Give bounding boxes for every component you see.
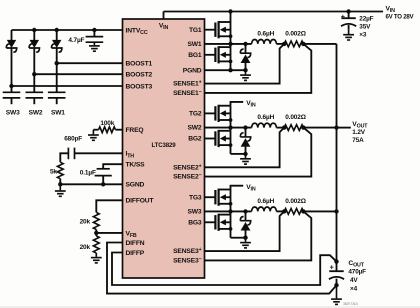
transistor Q2A top NMOS (TG2) <box>205 112 216 114</box>
svg-text:FREQ: FREQ <box>126 127 144 134</box>
node COUT top / remote+ <box>334 259 338 263</box>
node SGND at 5k <box>58 182 62 186</box>
svg-text:BOOST3: BOOST3 <box>126 83 153 90</box>
wire Q3B drain to SW3 <box>230 211 232 214</box>
node SW3 at schottky <box>243 209 247 213</box>
node RS1 right kelvin <box>301 42 305 46</box>
node INTVCC at D6 (BOOST1) <box>55 28 59 32</box>
svg-text:100k: 100k <box>100 120 114 127</box>
svg-text:20k: 20k <box>80 219 91 226</box>
node INTVCC at D5 (BOOST2) <box>32 28 36 32</box>
wire INTVCC rail <box>12 29 123 31</box>
wire Q1B drain to SW1 <box>230 44 232 47</box>
resistor RFREQ 100k <box>99 127 116 133</box>
schottky diode D2 (freewheel) <box>245 128 247 137</box>
ground at COUT <box>331 285 342 304</box>
svg-text:BG3: BG3 <box>188 219 202 226</box>
wire SENSE2- kelvin <box>205 128 312 177</box>
svg-text:0.6µH: 0.6µH <box>257 114 274 121</box>
wire ITH pin <box>75 152 123 154</box>
wire 680pF to 5k <box>60 153 68 162</box>
svg-text:BG2: BG2 <box>188 136 202 143</box>
svg-text:4.7µF: 4.7µF <box>68 37 84 44</box>
sense resistor RS3 0.002&#937; <box>284 209 303 215</box>
sense resistor RS2 0.002&#937; <box>284 125 303 131</box>
wire VOUT label stub <box>337 127 351 129</box>
wire COUT bottom lead <box>336 279 338 286</box>
node SW2 at schottky <box>243 125 247 129</box>
wire SW1 node <box>205 43 252 45</box>
node ground link phase 3 <box>243 236 247 240</box>
node VIN at Q1 drain <box>228 9 232 13</box>
wire RS2 to VOUT rail <box>303 127 336 129</box>
ground at RFB2 <box>91 253 102 263</box>
wire L1 to RS1 <box>276 43 284 45</box>
svg-text:TG1: TG1 <box>189 27 202 34</box>
svg-text:6V TO 28V: 6V TO 28V <box>386 13 415 20</box>
wire SENSE2+ kelvin <box>205 128 285 168</box>
transistor Q3B bottom NMOS (BG3) <box>205 221 216 223</box>
inductor L3 0.6µH <box>252 207 277 211</box>
svg-text:LTC3829: LTC3829 <box>152 142 177 149</box>
svg-text:4V: 4V <box>350 277 358 284</box>
svg-text:SENSE2+: SENSE2+ <box>173 163 202 171</box>
svg-text:DIFFOUT: DIFFOUT <box>126 198 155 205</box>
inductor L1 0.6µH <box>252 39 277 43</box>
ground at SGND <box>55 184 66 196</box>
svg-text:SW2: SW2 <box>187 125 201 132</box>
wire RS1 to VOUT rail <box>303 43 336 45</box>
wire Q1A drain to VIN rail <box>230 12 232 23</box>
svg-text:22µF: 22µF <box>359 15 373 22</box>
svg-text:DIFFP: DIFFP <box>126 250 145 257</box>
node SW1 at FET bus <box>228 42 232 46</box>
node INTVCC at CVCC <box>92 28 96 32</box>
svg-text:SW2: SW2 <box>29 110 43 117</box>
svg-text:680pF: 680pF <box>64 135 82 142</box>
svg-text:0.002Ω: 0.002Ω <box>285 198 306 205</box>
svg-text:SW1: SW1 <box>51 110 65 117</box>
node BOOST3 junction <box>9 84 13 88</box>
node SW3 at FET bus <box>228 209 232 213</box>
node SW2 at FET bus <box>228 125 232 129</box>
wire BOOST1 <box>57 62 123 64</box>
wire VIN input rail <box>164 11 384 13</box>
svg-text:35V: 35V <box>359 24 371 31</box>
wire VOUT rail <box>336 44 338 271</box>
svg-text:75A: 75A <box>352 137 364 144</box>
wire BOOST3 <box>12 85 123 87</box>
transistor Q3A top NMOS (TG3) <box>205 196 216 198</box>
wire Q2B source to ground link <box>231 153 246 155</box>
wire CIN top lead <box>348 12 350 19</box>
svg-text:SGND: SGND <box>126 182 145 189</box>
wire CSS bottom lead <box>102 176 104 185</box>
wire VFB pin <box>96 232 122 234</box>
node PGND at FET source <box>228 68 232 72</box>
svg-text:SW1: SW1 <box>187 41 201 48</box>
svg-text:PGND: PGND <box>183 67 202 74</box>
wire SENSE3+ kelvin <box>205 211 285 251</box>
wire RS3 to VOUT rail <box>303 210 336 212</box>
svg-text:20k: 20k <box>80 244 91 251</box>
node VIN at CIN <box>346 9 350 13</box>
wire RFREQ to ground <box>93 129 98 131</box>
wire Q2B drain to SW2 <box>230 128 232 131</box>
node ground link phase 2 <box>243 152 247 156</box>
wire D6 to CB1 <box>56 48 58 92</box>
svg-text:0.6µH: 0.6µH <box>257 31 274 38</box>
power ground phase 2 <box>240 154 251 164</box>
svg-text:SW3: SW3 <box>6 110 20 117</box>
wire SENSE1+ kelvin <box>205 44 285 84</box>
svg-text:SENSE3+: SENSE3+ <box>173 247 202 255</box>
svg-text:TG2: TG2 <box>189 111 202 118</box>
wire SGND <box>60 183 122 185</box>
svg-text:0.002Ω: 0.002Ω <box>285 114 306 121</box>
wire BOOST2 <box>34 73 122 75</box>
node RS3 left kelvin <box>282 209 286 213</box>
node BOOST2 junction <box>32 72 36 76</box>
resistor RFB1 20k (upper) <box>93 212 99 229</box>
wire DIFFP remote sense <box>112 253 337 286</box>
transistor Q1B bottom NMOS (BG1) <box>205 54 216 56</box>
boost schottky diode D5 (BOOST2) <box>33 30 35 40</box>
wire FREQ pin <box>115 129 122 131</box>
node RS1 left kelvin <box>282 42 286 46</box>
schottky diode D1 (freewheel) <box>245 44 247 53</box>
power ground phase 3 <box>240 238 251 248</box>
capacitor COUT 470µF 4V (polarized) <box>329 270 343 272</box>
ground at CVCC <box>89 42 100 51</box>
wire TK/SS pin <box>103 164 122 169</box>
capacitor CB2 (boost) <box>26 91 44 93</box>
ground at CIN <box>343 30 354 40</box>
resistor RITH 5k <box>57 162 63 178</box>
svg-text:×4: ×4 <box>350 286 358 293</box>
sense resistor RS1 0.002&#937; <box>284 41 303 47</box>
node ground link phase 1 <box>243 68 247 72</box>
wire SENSE1- kelvin <box>205 44 312 93</box>
ground at RFREQ <box>88 130 99 141</box>
wire CB2 to SW2 <box>33 98 35 104</box>
node VOUT phase3 <box>334 209 338 213</box>
wire Q2A drain VIN stub <box>231 102 244 106</box>
capacitor CSS 0.1µF <box>97 168 110 170</box>
wire 5k to SGND <box>59 179 61 185</box>
svg-text:BOOST2: BOOST2 <box>126 72 153 79</box>
node BOOST1 junction <box>55 61 59 65</box>
wire CB1 to SW1 <box>56 98 58 104</box>
capacitor CIN 22µF 35V (polarized) <box>341 17 355 19</box>
wire Q3A drain VIN stub <box>231 186 244 190</box>
svg-text:×3: ×3 <box>359 31 367 38</box>
svg-text:470µF: 470µF <box>348 269 366 276</box>
svg-text:COUT: COUT <box>348 260 364 269</box>
svg-text:1.2V: 1.2V <box>352 129 365 136</box>
node COUT bottom / remote- <box>334 283 338 287</box>
node RS3 right kelvin <box>301 209 305 213</box>
svg-text:SW3: SW3 <box>187 209 201 216</box>
node VOUT phase2 <box>334 125 338 129</box>
wire divider to VFB <box>95 230 97 236</box>
schottky diode D3 (freewheel) <box>245 211 247 220</box>
wire PGND pin to ground <box>205 69 246 71</box>
IC U1 LTC3829 body <box>123 19 205 278</box>
faint page bottom edge <box>0 306 420 308</box>
svg-text:0.1µF: 0.1µF <box>80 169 96 176</box>
svg-text:5k: 5k <box>50 168 57 175</box>
svg-text:BOOST1: BOOST1 <box>126 61 153 68</box>
power ground phase 1 <box>240 70 251 80</box>
node RS2 left kelvin <box>282 125 286 129</box>
wire L3 to RS3 <box>276 210 284 212</box>
node SW1 at schottky <box>243 42 247 46</box>
wire SW3 node <box>205 210 252 212</box>
svg-text:3829 TA01: 3829 TA01 <box>343 302 358 306</box>
wire CB3 to SW3 <box>11 98 13 104</box>
wire L2 to RS2 <box>276 127 284 129</box>
node SGND at CSS <box>101 182 105 186</box>
svg-text:VIN: VIN <box>246 184 256 193</box>
transistor Q1A top NMOS (TG1) <box>205 29 216 31</box>
wire DIFFN remote sense <box>107 243 337 294</box>
svg-text:SENSE1−: SENSE1− <box>173 89 202 97</box>
capacitor CITH 680pF <box>74 148 76 160</box>
wire D4 to CB3 <box>11 48 13 92</box>
svg-text:SENSE3−: SENSE3− <box>173 257 202 265</box>
resistor RFB2 20k (lower) <box>93 236 99 253</box>
wire SW2 node <box>205 127 252 129</box>
svg-text:+: + <box>341 12 345 21</box>
node RS2 right kelvin <box>301 125 305 129</box>
wire VIN pin up <box>163 12 165 20</box>
svg-text:0.6µH: 0.6µH <box>257 198 274 205</box>
node VFB divider tap <box>94 231 98 235</box>
svg-text:+: + <box>330 263 334 272</box>
svg-text:BG1: BG1 <box>188 52 202 59</box>
wire DIFFOUT pin <box>96 200 122 212</box>
capacitor CB3 (boost) <box>3 91 21 93</box>
transistor Q2B bottom NMOS (BG2) <box>205 138 216 140</box>
capacitor CB1 (boost) <box>48 91 66 93</box>
boost schottky diode D4 (BOOST3) <box>11 30 13 40</box>
inductor L2 0.6µH <box>252 123 277 127</box>
wire SENSE3- kelvin <box>205 211 312 260</box>
svg-text:TG3: TG3 <box>189 194 202 201</box>
svg-text:DIFFN: DIFFN <box>126 240 145 247</box>
svg-text:0.002Ω: 0.002Ω <box>285 31 306 38</box>
wire Q3B source to ground link <box>231 237 246 239</box>
svg-text:VIN: VIN <box>246 100 256 109</box>
wire D5 to CB2 <box>33 48 35 92</box>
wire CIN bottom lead <box>348 25 350 30</box>
svg-text:SENSE1+: SENSE1+ <box>173 80 202 88</box>
boost schottky diode D6 (BOOST1) <box>56 30 58 40</box>
svg-text:TK/SS: TK/SS <box>126 162 146 169</box>
svg-text:SENSE2−: SENSE2− <box>173 173 202 181</box>
capacitor CVCC 4.7µF (INTVCC bypass) <box>86 36 104 38</box>
wire CVCC top lead <box>93 30 95 37</box>
